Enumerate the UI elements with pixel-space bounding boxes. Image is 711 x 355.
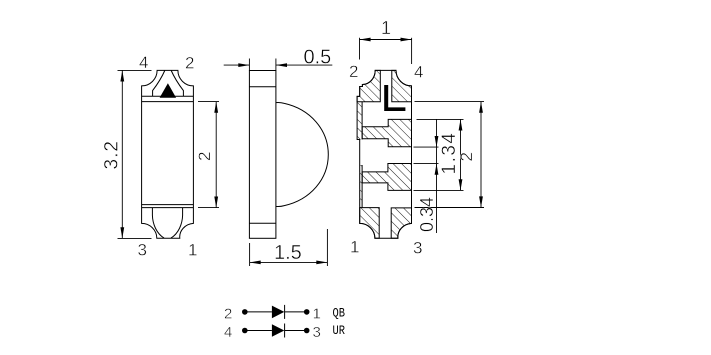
side view lens dome	[276, 102, 328, 206]
diode UR cathode bar	[284, 324, 286, 338]
front top terminal inner curve right	[171, 71, 183, 97]
ext 0.34-top	[414, 146, 439, 148]
dim 3.2 extension top	[118, 69, 152, 71]
dim 1.34 line	[460, 119, 462, 190]
back left side strip line upper	[361, 102, 363, 140]
dim 0.5 line right seg	[276, 64, 332, 66]
svg-text:1: 1	[381, 18, 391, 38]
dim 1.34 arrow down	[459, 179, 463, 190]
back bottom-left terminal (hatched)	[360, 208, 380, 239]
svg-text:3: 3	[313, 324, 321, 341]
svg-text:3: 3	[138, 241, 147, 260]
dim 1.5 ext right	[326, 229, 328, 266]
back bottom-right terminal (hatched)	[391, 208, 411, 238]
schematic wire row1 left	[245, 311, 272, 313]
back view outline	[357, 70, 411, 238]
svg-text:3: 3	[413, 239, 422, 258]
dim 2 front line	[215, 102, 217, 208]
dim 2 front arrow down	[214, 197, 218, 208]
dim 2 front ext top	[198, 101, 219, 103]
svg-text:4: 4	[139, 53, 148, 72]
svg-text:0.5: 0.5	[304, 47, 332, 69]
svg-text:1: 1	[313, 306, 321, 323]
front bottom terminal face line	[142, 207, 194, 209]
dim 1 arrow left	[360, 38, 371, 42]
svg-text:2: 2	[349, 62, 358, 81]
schematic wire row2 left	[245, 330, 272, 332]
front bottom terminal inner curve left	[152, 208, 164, 239]
dim 1.34 arrow up	[459, 119, 463, 130]
dim 1 ext right	[411, 38, 413, 64]
svg-text:3.2: 3.2	[102, 140, 123, 169]
side view top band line	[249, 86, 276, 88]
dim 0.5 arrow right-pointing	[238, 63, 249, 67]
svg-text:4: 4	[414, 63, 423, 82]
cathode mark triangle	[160, 83, 177, 98]
dim 1 ext left	[359, 38, 361, 60]
ext 2-top right	[415, 101, 485, 103]
back top-left terminal (hatched)	[357, 70, 380, 101]
svg-text:2: 2	[185, 54, 194, 73]
dim 0.5 line left seg	[224, 64, 249, 66]
svg-text:1: 1	[350, 238, 359, 257]
svg-text:UR: UR	[333, 323, 345, 338]
schematic node dot left row1	[242, 309, 248, 315]
dim 0.5 arrow left-pointing	[276, 63, 287, 67]
svg-text:2: 2	[224, 306, 232, 323]
front view outline	[142, 70, 194, 238]
dim 2 front ext bottom	[198, 207, 219, 209]
schematic node dot right row1	[304, 309, 310, 315]
dim 0.34 arrow down (above)	[435, 136, 439, 147]
ext 0.34-bottom	[414, 163, 439, 165]
back left side strip line lower	[361, 165, 363, 208]
schematic node dot right row2	[304, 328, 310, 334]
dim 1.5 line	[250, 261, 328, 263]
svg-text:2: 2	[457, 152, 476, 161]
schematic wire row2 right	[285, 330, 307, 332]
dim 0.5 ext left	[248, 59, 250, 71]
svg-text:1.5: 1.5	[274, 242, 302, 264]
ext 1.34-bottom	[414, 189, 464, 191]
schematic wire row1 right	[285, 311, 307, 313]
dim 1 arrow right	[401, 38, 412, 42]
dim 3.2 arrow up	[120, 70, 124, 81]
dim 0.34 line	[436, 119, 438, 233]
svg-text:4: 4	[224, 324, 232, 341]
front top terminal inner curve left	[153, 71, 165, 97]
dim 2 back arrow down	[479, 196, 483, 207]
schematic node dot left row2	[242, 328, 248, 334]
dim 1.5 arrow right	[316, 261, 327, 265]
front body top line	[142, 101, 194, 103]
back top-right terminal (hatched)	[392, 70, 412, 101]
side view body	[249, 71, 276, 239]
ext 2-bottom right	[415, 207, 485, 209]
dim 0.5 ext right	[275, 59, 277, 71]
dim 3.2 line	[121, 70, 123, 238]
back inner terminal C (hatched)	[362, 164, 411, 191]
ext 1.34-top	[417, 118, 464, 120]
dim 2 back arrow up	[479, 102, 483, 113]
dim 3.2 extension bottom	[118, 237, 152, 239]
front bottom terminal inner curve right	[171, 208, 183, 239]
diode QB triangle	[272, 306, 284, 319]
front top terminal face line	[142, 95, 194, 97]
dim 1 line	[360, 39, 412, 41]
diode UR triangle	[272, 324, 284, 337]
diode QB cathode bar	[284, 305, 286, 319]
svg-text:0.34: 0.34	[417, 197, 437, 232]
svg-text:QB: QB	[333, 305, 345, 320]
back left side strip hatch upper	[357, 102, 362, 140]
side view bottom band line	[249, 222, 276, 224]
dim 2 back line	[480, 102, 482, 208]
svg-text:2: 2	[195, 152, 214, 161]
dim 3.2 arrow down	[120, 227, 124, 238]
dim 1.5 arrow left	[250, 261, 261, 265]
dim 2 front arrow up	[214, 102, 218, 113]
svg-text:1: 1	[188, 241, 197, 260]
back left side strip hatch lower	[360, 165, 362, 208]
dim 0.34 arrow up (below)	[435, 164, 439, 175]
back inner terminal B (hatched)	[362, 119, 411, 146]
dim 1.5 ext left	[249, 243, 251, 266]
polarity L mark	[384, 85, 405, 111]
front body bottom line	[142, 204, 194, 206]
